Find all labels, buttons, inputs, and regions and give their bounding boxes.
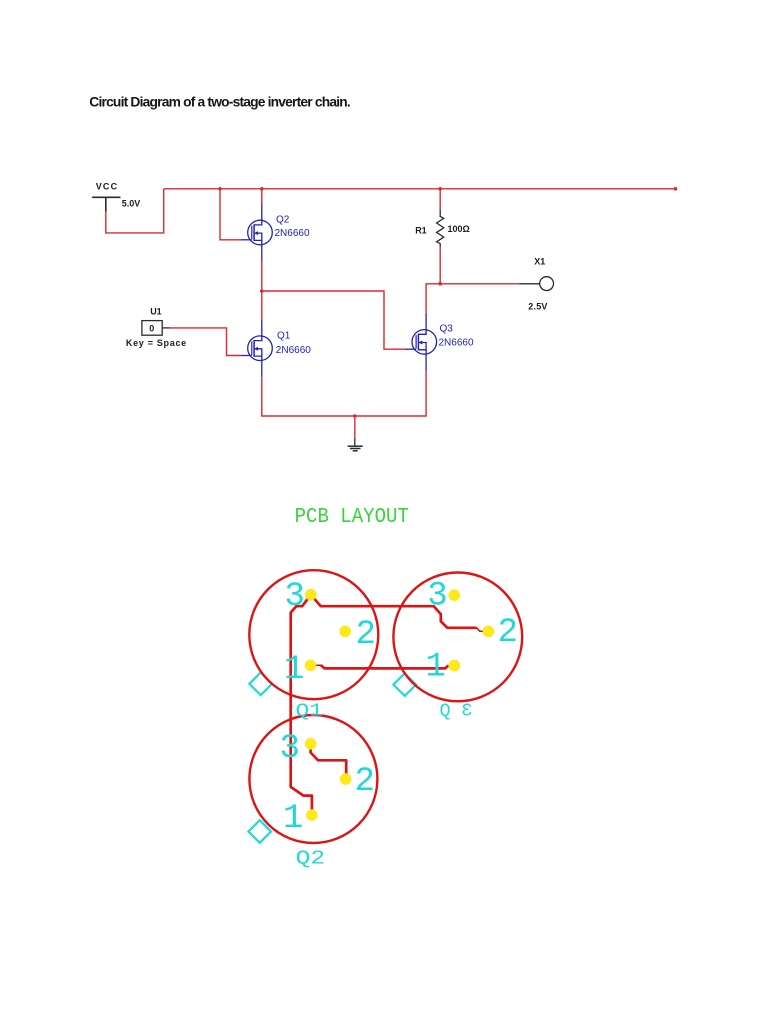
PCB label Q3 bbox=[440, 701, 473, 722]
pad Q1.2 bbox=[339, 626, 351, 638]
junction on rail at Q2 gate riser bbox=[218, 187, 222, 191]
svg-text:X1: X1 bbox=[534, 256, 545, 266]
trace stub into Q3 pad1 bbox=[448, 665, 454, 667]
wire U1 to Q1 gate bbox=[170, 328, 241, 356]
svg-text:2N6660: 2N6660 bbox=[439, 337, 474, 348]
wire VCC to top rail bbox=[106, 189, 164, 233]
pad Q3.1 bbox=[449, 660, 461, 672]
svg-text:Q: Q bbox=[440, 701, 451, 722]
svg-text:100Ω: 100Ω bbox=[448, 224, 470, 234]
svg-text:2: 2 bbox=[498, 614, 518, 652]
svg-text:0: 0 bbox=[149, 324, 154, 334]
wire Q2 source to node A bbox=[261, 262, 263, 292]
trace Q2 pad3 to Q2 pad2 bbox=[311, 744, 347, 779]
junction on rail at Q2 drain bbox=[260, 187, 264, 191]
trace Q1 pad3 to Q3 pad2 bbox=[311, 595, 477, 628]
pad Q1.1 bbox=[305, 660, 317, 672]
pad Q2.3 bbox=[305, 738, 317, 750]
svg-text:Q2: Q2 bbox=[276, 215, 290, 226]
wire bottom rail bbox=[262, 371, 426, 416]
svg-text:Q1: Q1 bbox=[296, 701, 324, 722]
junction on rail at R1 bbox=[438, 187, 442, 191]
wire Q2 drain bbox=[261, 189, 263, 204]
pad Q2.1 bbox=[306, 809, 318, 821]
svg-text:1: 1 bbox=[284, 651, 304, 689]
svg-text:1: 1 bbox=[283, 800, 303, 838]
pad Q3.3 bbox=[449, 589, 461, 601]
trace stub from Q1 pad1 bbox=[311, 664, 322, 666]
svg-text:1: 1 bbox=[426, 649, 446, 687]
svg-text:U1: U1 bbox=[150, 307, 162, 317]
U1 box bbox=[142, 321, 162, 336]
svg-text:Key = Space: Key = Space bbox=[126, 338, 187, 348]
PCB pin1 diamond Q3 bbox=[393, 673, 416, 696]
junction node A bbox=[260, 289, 264, 293]
wire top rail bbox=[164, 188, 676, 190]
svg-text:2: 2 bbox=[356, 616, 376, 654]
svg-text:2.5V: 2.5V bbox=[528, 302, 547, 312]
svg-text:Q2: Q2 bbox=[296, 848, 326, 870]
svg-text:3: 3 bbox=[280, 730, 300, 768]
svg-text:Q1: Q1 bbox=[277, 331, 291, 342]
junction ground bbox=[353, 414, 357, 418]
PCB footprint circle Q3 bbox=[393, 573, 522, 702]
node rail right end bbox=[674, 187, 678, 191]
svg-text:2N6660: 2N6660 bbox=[276, 345, 311, 356]
resistor R1 bbox=[437, 189, 444, 284]
trace Q1 pad1 to Q3 pad1 bbox=[321, 665, 449, 668]
transistor Q3 bbox=[405, 313, 436, 371]
svg-text:3: 3 bbox=[285, 578, 305, 616]
junction R1 bottom bbox=[438, 282, 442, 286]
PCB footprint circle Q2 bbox=[249, 715, 377, 843]
svg-text:3: 3 bbox=[427, 578, 447, 616]
wire Q3 drain to X1 bbox=[426, 284, 519, 313]
pad Q3.2 bbox=[483, 626, 495, 638]
wire rail to Q2 gate bbox=[220, 189, 241, 240]
PCB footprint circle Q1 bbox=[249, 570, 378, 699]
ground bbox=[348, 438, 363, 451]
svg-text:VCC: VCC bbox=[96, 182, 119, 192]
transistor Q1 bbox=[241, 319, 272, 377]
svg-text:2: 2 bbox=[355, 763, 375, 801]
svg-text:PCB LAYOUT: PCB LAYOUT bbox=[295, 506, 409, 529]
svg-text:Circuit Diagram of a two-stage: Circuit Diagram of a two-stage inverter … bbox=[89, 94, 350, 109]
power VCC symbol bbox=[92, 197, 120, 212]
PCB pin1 diamond Q1 bbox=[249, 673, 272, 696]
pad Q2.2 bbox=[340, 773, 352, 785]
connector X1 bbox=[520, 277, 554, 291]
pad Q1.3 bbox=[305, 589, 317, 601]
wire node A to Q1 drain bbox=[261, 291, 263, 319]
trace stub into Q3 pad2 bbox=[477, 628, 489, 632]
svg-text:5.0V: 5.0V bbox=[122, 199, 141, 209]
transistor Q2 bbox=[241, 204, 272, 262]
trace Q1 pad3 to Q2 pad1 bbox=[291, 595, 312, 815]
PCB pin1 diamond Q2 bbox=[248, 820, 271, 843]
svg-text:3: 3 bbox=[461, 701, 472, 722]
svg-text:2N6660: 2N6660 bbox=[275, 228, 310, 239]
svg-text:Q3: Q3 bbox=[440, 324, 454, 335]
wire ground stem bbox=[354, 416, 356, 438]
svg-text:R1: R1 bbox=[415, 225, 427, 235]
wire node A to Q3 gate bbox=[262, 291, 406, 349]
